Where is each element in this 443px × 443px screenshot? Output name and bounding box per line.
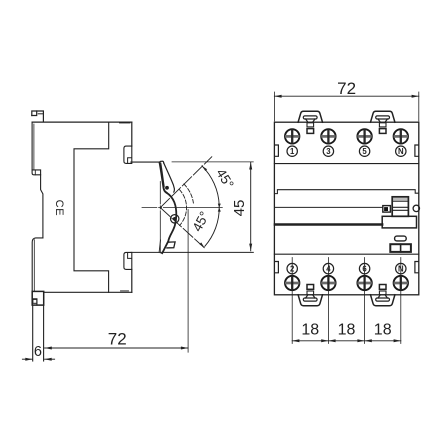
terminal screw bottom 2 [285, 276, 299, 290]
inner contour [74, 122, 109, 292]
toggle foot [167, 242, 175, 248]
mid tick arrows [218, 204, 221, 208]
svg-text:1: 1 [290, 147, 295, 156]
back mid vertical [41, 175, 43, 238]
test button [390, 244, 411, 252]
terminal screw top 1 [285, 129, 299, 143]
pole number top 1 [287, 146, 297, 156]
top edge dark tick [120, 122, 130, 124]
6 dim [22, 358, 32, 360]
diagonal down-right dashed [160, 208, 205, 249]
face bulge [162, 193, 176, 254]
terminal screw bottom N [394, 276, 408, 290]
line A [274, 163, 418, 165]
pole number bottom 2 [287, 263, 297, 273]
pole number top 5 [359, 146, 369, 156]
svg-text:18: 18 [301, 322, 319, 339]
terminal screw bottom 4 [321, 276, 335, 290]
front upper vertical [131, 122, 133, 146]
pole number bottom 4 [323, 263, 333, 273]
svg-text:6: 6 [34, 344, 42, 360]
face inner line [159, 240, 160, 252]
rail leg [32, 305, 34, 361]
RIGHT FRONT VIEW [274, 92, 418, 295]
svg-text:72: 72 [337, 79, 356, 98]
brackets [275, 145, 279, 156]
thick line [275, 223, 382, 225]
lower pivot circle [171, 215, 179, 223]
toggle knob [393, 198, 408, 202]
18 dim extension lines [291, 258, 293, 344]
72 dim extension right [187, 210, 189, 353]
line B inset [275, 190, 418, 194]
72 dim line [45, 347, 189, 349]
top rail tab [32, 111, 44, 122]
neck+square bottom clips [298, 285, 322, 306]
svg-text:18: 18 [374, 322, 392, 339]
centerline horizontal [142, 207, 222, 209]
seal circle [413, 205, 419, 211]
pivot dot [165, 186, 169, 190]
svg-text:CE: CE [53, 200, 65, 217]
foot lower [32, 291, 44, 305]
dashed arc r26 [180, 190, 187, 226]
svg-text:5: 5 [362, 147, 367, 156]
divider bottom [274, 253, 418, 255]
diagonal up-right dashed [160, 157, 212, 208]
back double line upper [31, 122, 33, 170]
toggle lever [160, 161, 164, 163]
45 dim vertical [250, 162, 252, 251]
line C [275, 206, 383, 208]
45 dim top extension [172, 161, 253, 163]
terminal screw top N [394, 129, 408, 143]
18 dim line [292, 340, 401, 342]
pole number top N [396, 146, 406, 156]
svg-text:N: N [398, 147, 404, 156]
bottom horizontal under toggle + extension to 45 dim [131, 251, 253, 253]
screws + numbers top [285, 129, 408, 156]
hook upper [124, 146, 132, 163]
toggle base [382, 216, 416, 228]
clips top [298, 111, 322, 133]
rounded step [32, 238, 43, 291]
terminal screw bottom 6 [357, 276, 371, 290]
dim arc 45deg [202, 166, 219, 246]
bottom edge [44, 291, 132, 293]
pole number bottom 6 [359, 263, 369, 273]
72 dim top [273, 92, 275, 121]
terminals bottom [285, 263, 408, 290]
pole number top 3 [323, 146, 333, 156]
indicator [383, 206, 391, 213]
top edge [32, 121, 132, 123]
dashed arc r33 [184, 184, 194, 203]
svg-text:72: 72 [108, 330, 127, 349]
pole number bottom N [396, 263, 406, 273]
svg-text:3: 3 [326, 147, 331, 156]
foot upper [32, 170, 41, 175]
svg-text:45: 45 [231, 200, 248, 217]
hook lower [124, 252, 132, 269]
front lower vertical [131, 269, 133, 292]
svg-text:18: 18 [338, 322, 356, 339]
terminal screw top 5 [357, 129, 371, 143]
terminal screw top 3 [321, 129, 335, 143]
pill window [395, 236, 407, 241]
body outline [274, 122, 418, 295]
centerline vertical [159, 182, 161, 254]
arc end arrows [202, 166, 207, 171]
